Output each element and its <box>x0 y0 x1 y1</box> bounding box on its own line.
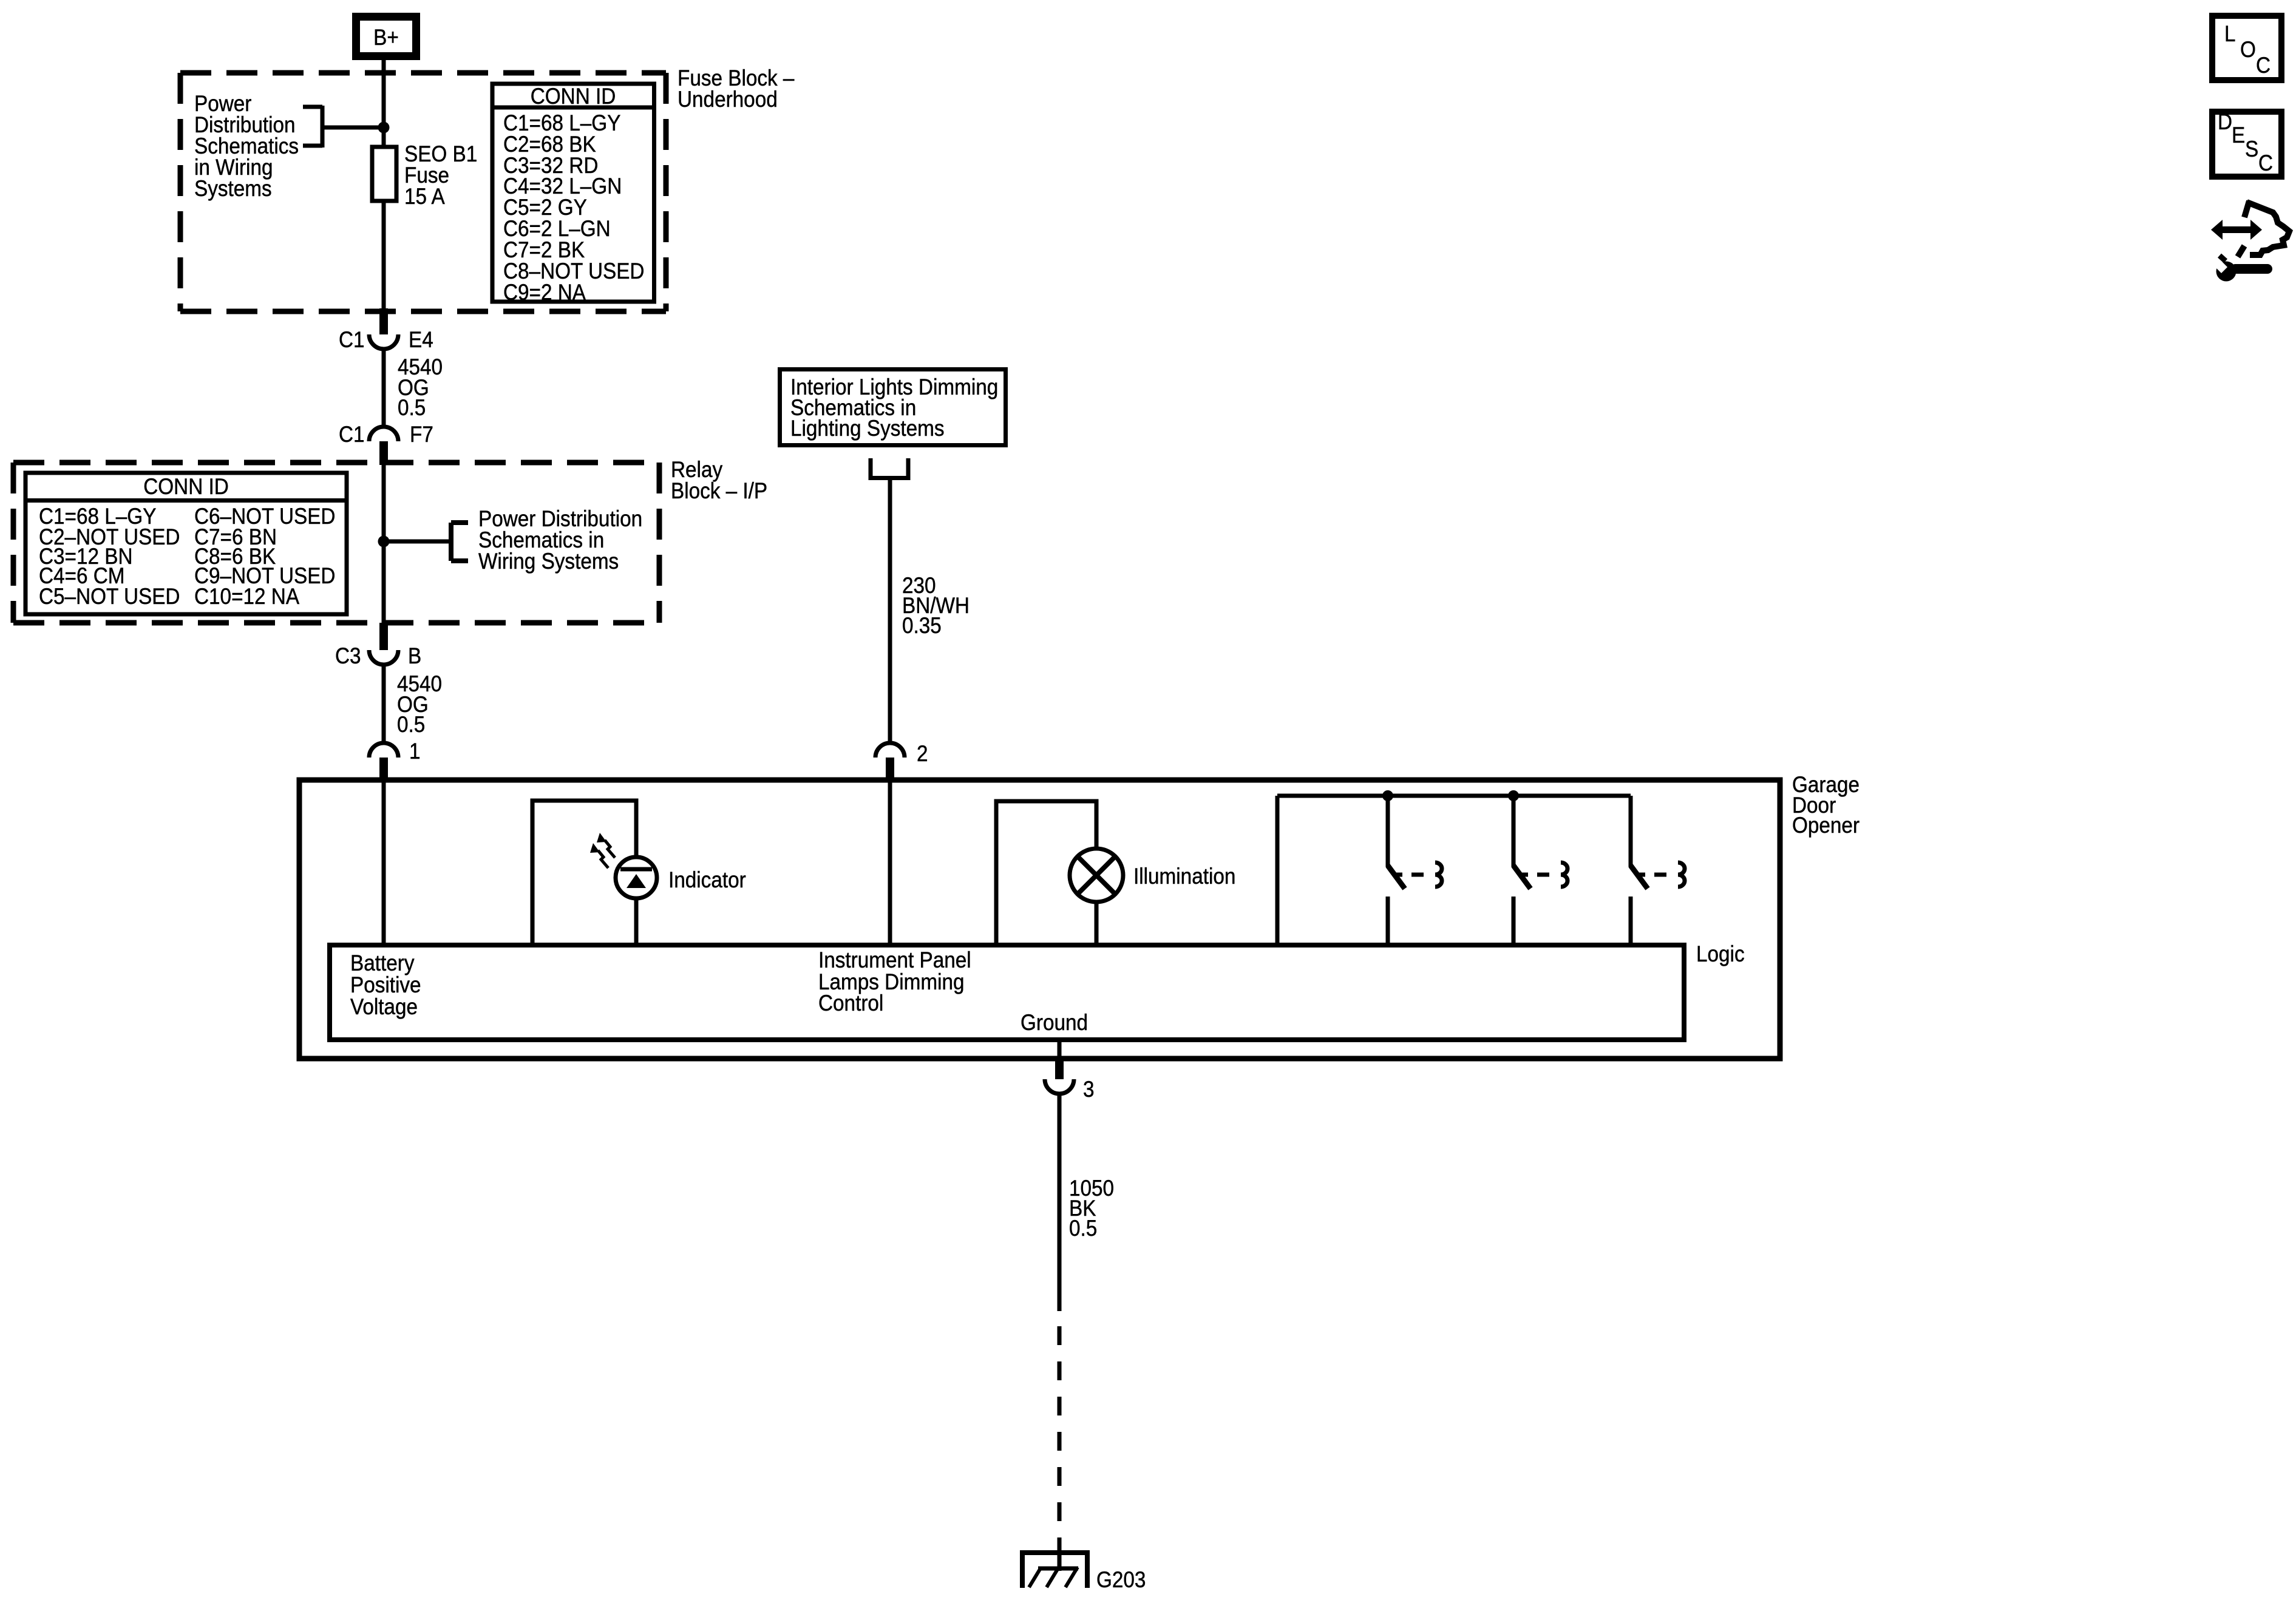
junction dot relay block <box>378 536 390 547</box>
icon DESC <box>2212 109 2281 177</box>
svg-text:B+: B+ <box>373 25 399 50</box>
svg-text:E: E <box>2232 123 2245 147</box>
illumination lamp <box>1070 849 1123 945</box>
svg-text:2: 2 <box>917 741 928 766</box>
svg-text:15 A: 15 A <box>404 184 445 209</box>
connector pin1 arc <box>369 743 398 758</box>
connector labels C1 F7 <box>339 422 433 447</box>
svg-text:Illumination: Illumination <box>1133 864 1235 889</box>
svg-text:Instrument Panel: Instrument Panel <box>818 947 971 972</box>
garage door opener box <box>299 780 1780 1059</box>
svg-text:0.35: 0.35 <box>902 613 942 638</box>
terminal stub F7 <box>379 441 388 465</box>
wire pin2 inside box <box>888 780 892 945</box>
wire pin1 inside box <box>382 780 386 945</box>
svg-text:G203: G203 <box>1096 1567 1146 1592</box>
svg-text:Systems: Systems <box>194 176 272 201</box>
svg-text:Positive: Positive <box>350 972 421 997</box>
svg-text:B: B <box>408 643 421 668</box>
connector labels C3 B <box>335 643 421 668</box>
svg-text:Indicator: Indicator <box>668 867 746 892</box>
svg-text:C5–NOT USED: C5–NOT USED <box>39 584 180 609</box>
fuse block underhood dashed box <box>180 73 666 311</box>
svg-text:Logic: Logic <box>1696 941 1745 966</box>
svg-text:Underhood: Underhood <box>678 87 778 112</box>
svg-text:Voltage: Voltage <box>350 994 418 1019</box>
switch sub-box top line <box>1277 794 1631 798</box>
label relay block I/P <box>671 457 767 503</box>
wire dashed to G203 <box>1058 1326 1062 1545</box>
connector pin2 arc <box>875 743 905 758</box>
terminal stub E4 <box>379 308 388 334</box>
indicator LED <box>616 857 657 898</box>
wire bracket fuse block <box>322 126 384 130</box>
switch S3 <box>1631 796 1685 945</box>
bracket note power distribution (fuse block) <box>194 91 322 201</box>
svg-text:0.5: 0.5 <box>1069 1216 1097 1241</box>
wire pin2 from interior lights <box>888 480 892 743</box>
svg-text:0.5: 0.5 <box>397 712 425 737</box>
svg-text:L: L <box>2224 21 2236 46</box>
icon service double arrow <box>2211 220 2262 240</box>
switch sub-box left edge <box>1275 796 1280 945</box>
svg-text:1: 1 <box>409 739 421 764</box>
svg-text:CONN ID: CONN ID <box>143 474 229 499</box>
wire label 1050 BK 0.5 <box>1069 1176 1114 1241</box>
svg-text:C1: C1 <box>339 422 365 447</box>
wire B+ to connector E4 <box>382 60 386 311</box>
fuse SEO B1 15 A <box>372 141 477 209</box>
conn id table relay block <box>25 473 347 614</box>
connector pin3 arc <box>1045 1079 1074 1094</box>
switch S1 <box>1388 796 1442 945</box>
svg-text:C1: C1 <box>339 327 365 352</box>
bracket note power distribution (relay block) <box>451 506 642 574</box>
svg-text:Block – I/P: Block – I/P <box>671 478 767 503</box>
svg-text:C3: C3 <box>335 643 361 668</box>
wire bracket relay block <box>384 540 449 544</box>
interior lights dimming reference box <box>780 370 1006 446</box>
wire F7 through relay block <box>382 465 386 623</box>
svg-text:Battery: Battery <box>350 951 415 975</box>
wire B to pin1 <box>382 665 386 743</box>
svg-text:Control: Control <box>818 991 883 1015</box>
svg-text:O: O <box>2240 37 2256 62</box>
connector C3 B arc <box>369 650 398 665</box>
svg-text:S: S <box>2245 137 2258 161</box>
svg-text:Ground: Ground <box>1021 1010 1088 1035</box>
conn id table fuse block <box>492 84 654 305</box>
wire label 4540 OG 0.5 (upper) <box>398 354 443 420</box>
ground symbol G203 <box>1020 1550 1089 1588</box>
battery feed symbol B+ <box>356 17 416 56</box>
connector labels C1 E4 <box>339 327 433 352</box>
svg-text:Lighting Systems: Lighting Systems <box>790 416 944 441</box>
svg-text:C: C <box>2258 151 2273 175</box>
label battery positive voltage <box>350 951 421 1019</box>
label garage door opener <box>1792 772 1860 838</box>
svg-text:0.5: 0.5 <box>398 395 426 420</box>
terminal stub pin2 <box>886 758 894 779</box>
terminal stub pin3 <box>1055 1059 1064 1079</box>
junction dot switch 2 <box>1508 790 1519 801</box>
logic box <box>330 945 1684 1040</box>
wire below pin3 <box>1058 1094 1062 1311</box>
svg-text:E4: E4 <box>409 327 433 352</box>
connector C1 E4 arc <box>369 334 398 349</box>
wire G203 stub <box>1058 1538 1062 1571</box>
wire ground pin3 <box>1058 1040 1062 1059</box>
wire label 4540 OG 0.5 (lower) <box>397 671 442 737</box>
svg-text:F7: F7 <box>410 422 433 447</box>
label fuse block underhood <box>678 66 795 112</box>
svg-text:CONN ID: CONN ID <box>531 84 616 109</box>
connector C1 F7 arc <box>369 427 398 441</box>
junction dot fuse block <box>378 122 390 134</box>
svg-text:C9=2 NA: C9=2 NA <box>503 280 586 305</box>
svg-text:C10=12 NA: C10=12 NA <box>194 584 300 609</box>
illumination sub-box <box>996 801 1096 945</box>
svg-text:C: C <box>2256 53 2271 78</box>
off page connector bracket <box>871 458 908 478</box>
switch S2 <box>1513 796 1567 945</box>
svg-text:3: 3 <box>1083 1077 1095 1102</box>
icon service wrench <box>2209 255 2267 282</box>
relay block I/P dashed box <box>13 463 659 623</box>
terminal stub B <box>379 623 388 650</box>
terminal stub pin1 <box>379 758 388 779</box>
indicator sub-box <box>532 801 636 945</box>
label instrument panel lamps dimming control <box>818 947 971 1015</box>
svg-text:D: D <box>2218 109 2232 134</box>
indicator light arrows <box>598 840 615 868</box>
junction dot switch 1 <box>1382 790 1393 801</box>
icon service hand <box>2238 201 2289 257</box>
svg-text:Wiring Systems: Wiring Systems <box>478 549 619 574</box>
wire E4 to F7 <box>382 349 386 427</box>
icon LOC <box>2212 16 2281 80</box>
wire label 230 BN/WH 0.35 <box>902 573 970 638</box>
svg-text:Opener: Opener <box>1792 813 1860 838</box>
